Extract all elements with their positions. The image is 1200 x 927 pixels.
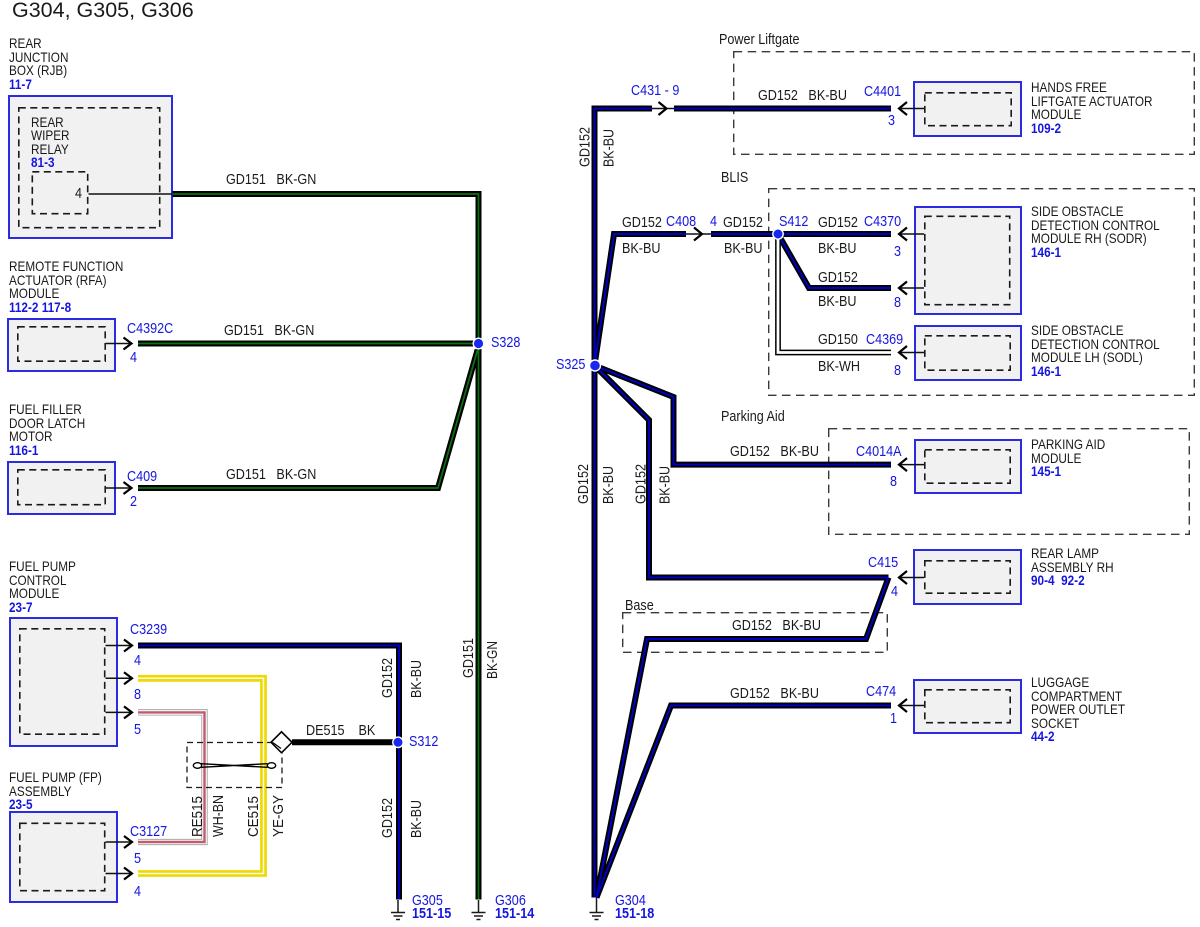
svg-text:GD151: GD151 <box>460 638 477 678</box>
svg-text:BK-BU: BK-BU <box>408 800 425 838</box>
svg-text:BK-GN: BK-GN <box>484 641 501 679</box>
svg-text:BK-BU: BK-BU <box>408 660 425 698</box>
svg-text:BK-BU: BK-BU <box>657 466 674 504</box>
svg-text:GD152: GD152 <box>633 464 650 504</box>
svg-text:BK-BU: BK-BU <box>600 466 617 504</box>
svg-text:GD152: GD152 <box>379 798 396 838</box>
svg-text:GD152: GD152 <box>575 464 592 504</box>
svg-text:GD152: GD152 <box>577 127 594 167</box>
svg-text:YE-GY: YE-GY <box>270 795 287 837</box>
svg-text:RE515: RE515 <box>189 796 206 837</box>
svg-text:WH-BN: WH-BN <box>210 795 227 837</box>
svg-text:CE515: CE515 <box>245 796 262 837</box>
svg-text:BK-BU: BK-BU <box>601 129 618 167</box>
svg-text:GD152: GD152 <box>379 658 396 698</box>
